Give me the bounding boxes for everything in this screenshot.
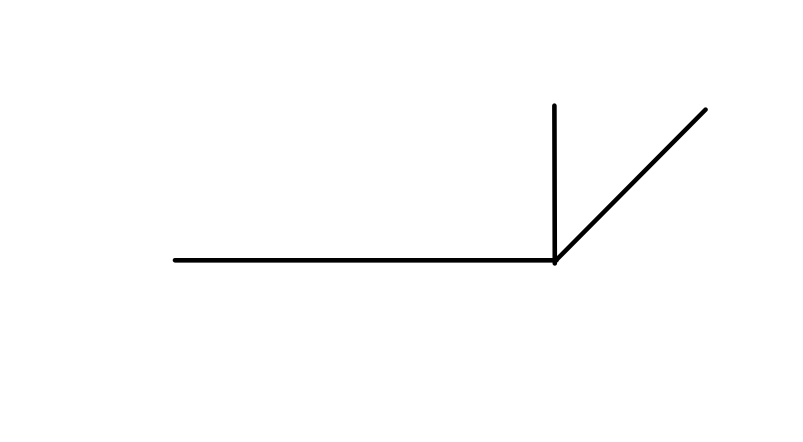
vertical line segment bbox=[552, 106, 557, 264]
horizontal line segment bbox=[175, 258, 557, 263]
diagonal ray bbox=[556, 110, 706, 261]
